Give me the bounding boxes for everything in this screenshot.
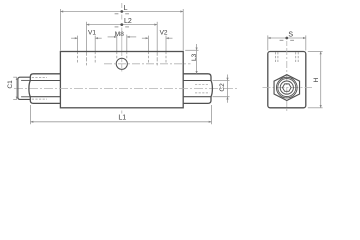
svg-text:L: L — [124, 5, 128, 12]
left cap hidden plug profile — [32, 77, 47, 79]
valve body — [60, 52, 183, 108]
svg-text:L3: L3 — [191, 53, 198, 61]
svg-text:H: H — [313, 77, 320, 82]
main axis centreline — [14, 88, 237, 90]
right hex end cap — [183, 74, 212, 104]
svg-text:C1: C1 — [7, 80, 14, 89]
end view plug circle — [280, 81, 293, 94]
end view vertical centreline — [286, 41, 288, 48]
dimension L1 — [31, 121, 212, 123]
left plug fitting — [18, 77, 30, 99]
end view port hidden lines — [277, 52, 279, 62]
M8 hole hidden lines — [116, 52, 118, 59]
V1 hole hidden lines — [77, 52, 79, 63]
svg-text:M8: M8 — [115, 31, 124, 38]
L extension lines — [59, 9, 61, 51]
end view horizontal centreline — [263, 87, 313, 89]
right cap thread hidden lines — [195, 83, 210, 85]
dimension H — [308, 51, 323, 53]
svg-text:V1: V1 — [88, 29, 96, 36]
dimension M8 — [108, 36, 117, 38]
vertical centreline — [121, 3, 123, 9]
svg-text:L1: L1 — [118, 115, 126, 122]
svg-text:C2: C2 — [219, 83, 226, 92]
pilot horizontal centreline — [104, 63, 191, 65]
svg-text:V2: V2 — [160, 29, 168, 36]
dimension L — [60, 11, 183, 13]
V2 hole hidden lines — [147, 52, 149, 63]
svg-text:L2: L2 — [124, 18, 132, 25]
end view hex nut (big) — [274, 75, 300, 101]
pilot piston circle — [116, 58, 127, 69]
dimension C2 — [213, 80, 230, 82]
allen socket hex — [283, 84, 292, 91]
end view washer rings — [276, 77, 297, 98]
left hex end cap — [29, 74, 61, 104]
dimension L3 — [185, 49, 198, 51]
dimension V2 — [142, 37, 149, 39]
dimension S — [268, 37, 306, 39]
dimension V1 — [71, 37, 78, 39]
end view body outline — [268, 52, 306, 108]
dimension C1 — [13, 76, 17, 78]
svg-text:S: S — [288, 32, 293, 39]
dimension L2 — [86, 24, 157, 26]
